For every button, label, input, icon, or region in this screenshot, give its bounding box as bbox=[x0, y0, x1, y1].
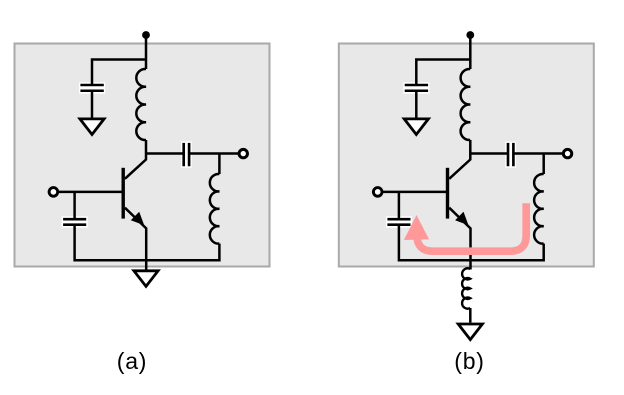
svg-text:(b): (b) bbox=[454, 348, 485, 374]
svg-text:(a): (a) bbox=[117, 348, 148, 374]
